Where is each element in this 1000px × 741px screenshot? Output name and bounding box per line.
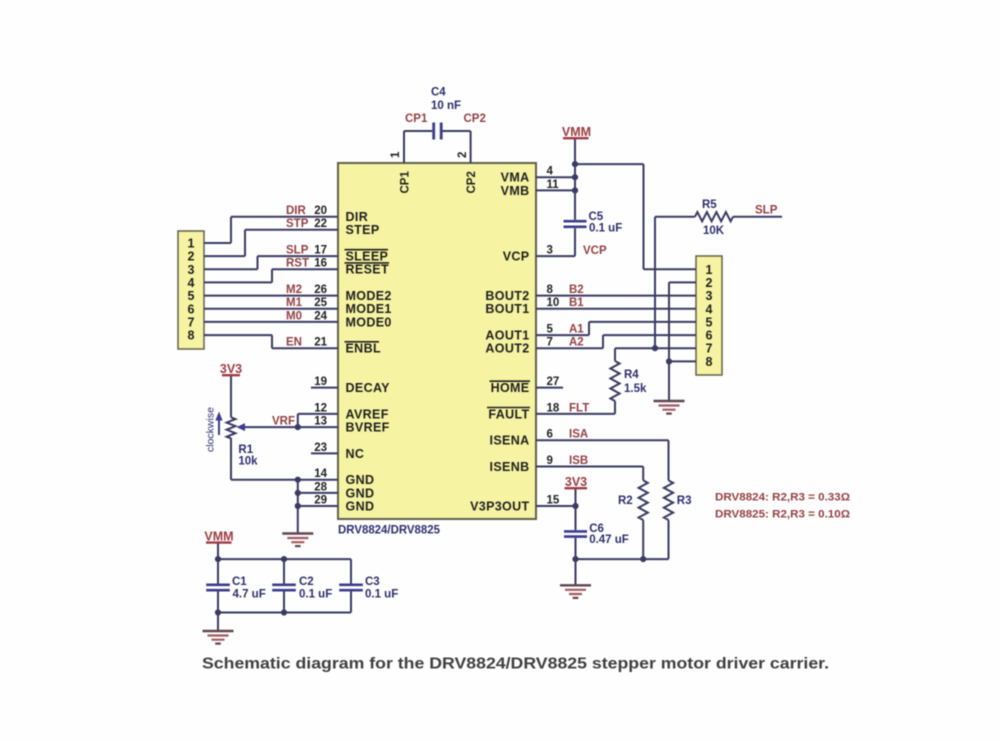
svg-text:18: 18 bbox=[547, 402, 560, 414]
svg-text:ISB: ISB bbox=[569, 455, 588, 467]
svg-text:MODE1: MODE1 bbox=[346, 302, 392, 316]
svg-text:DRV8824: R2,R3 = 0.33Ω: DRV8824: R2,R3 = 0.33Ω bbox=[715, 492, 850, 504]
svg-text:29: 29 bbox=[314, 494, 327, 506]
svg-text:10 nF: 10 nF bbox=[431, 100, 461, 112]
svg-text:VMM: VMM bbox=[204, 530, 233, 544]
svg-text:0.1 uF: 0.1 uF bbox=[589, 223, 622, 235]
svg-text:EN: EN bbox=[286, 337, 302, 349]
svg-text:HOME: HOME bbox=[491, 381, 530, 395]
svg-text:GND: GND bbox=[346, 473, 375, 487]
svg-text:5: 5 bbox=[188, 289, 195, 303]
svg-text:B1: B1 bbox=[569, 297, 584, 309]
svg-text:3: 3 bbox=[547, 245, 553, 257]
svg-text:RST: RST bbox=[286, 258, 309, 270]
svg-text:VCP: VCP bbox=[583, 245, 607, 257]
svg-text:7: 7 bbox=[706, 342, 713, 356]
svg-text:VMA: VMA bbox=[501, 171, 530, 185]
svg-text:11: 11 bbox=[547, 179, 560, 191]
svg-text:28: 28 bbox=[314, 481, 327, 493]
svg-text:C5: C5 bbox=[589, 211, 604, 223]
svg-text:NC: NC bbox=[346, 447, 365, 461]
svg-text:7: 7 bbox=[547, 337, 553, 349]
svg-text:17: 17 bbox=[314, 245, 327, 257]
svg-text:24: 24 bbox=[314, 310, 327, 322]
svg-text:STP: STP bbox=[286, 218, 309, 230]
svg-text:12: 12 bbox=[314, 402, 327, 414]
svg-text:FLT: FLT bbox=[569, 402, 589, 414]
svg-text:19: 19 bbox=[314, 376, 327, 388]
svg-text:4: 4 bbox=[706, 302, 713, 316]
svg-text:R4: R4 bbox=[624, 369, 639, 381]
svg-text:3: 3 bbox=[188, 263, 195, 277]
svg-text:5: 5 bbox=[547, 324, 554, 336]
svg-text:MODE2: MODE2 bbox=[346, 289, 392, 303]
svg-text:C2: C2 bbox=[299, 576, 314, 588]
svg-text:AOUT2: AOUT2 bbox=[485, 342, 529, 356]
svg-text:DIR: DIR bbox=[346, 210, 369, 224]
svg-text:3V3: 3V3 bbox=[220, 362, 242, 376]
svg-text:6: 6 bbox=[188, 302, 195, 316]
svg-text:M2: M2 bbox=[286, 284, 302, 296]
svg-text:FAULT: FAULT bbox=[488, 407, 529, 421]
svg-text:clockwise: clockwise bbox=[205, 407, 217, 452]
svg-text:R3: R3 bbox=[677, 495, 692, 507]
svg-text:5: 5 bbox=[706, 315, 713, 329]
svg-text:CP2: CP2 bbox=[466, 171, 478, 193]
svg-text:2: 2 bbox=[706, 276, 713, 290]
svg-text:10k: 10k bbox=[238, 456, 258, 468]
svg-text:VRF: VRF bbox=[272, 416, 295, 428]
svg-text:27: 27 bbox=[547, 376, 560, 388]
svg-text:26: 26 bbox=[314, 284, 327, 296]
svg-text:ISA: ISA bbox=[569, 429, 588, 441]
svg-text:R1: R1 bbox=[238, 444, 253, 456]
svg-text:15: 15 bbox=[547, 494, 560, 506]
svg-text:8: 8 bbox=[188, 329, 195, 343]
svg-text:STEP: STEP bbox=[346, 223, 380, 237]
svg-text:C3: C3 bbox=[365, 576, 380, 588]
svg-text:CP2: CP2 bbox=[464, 113, 486, 125]
svg-text:AVREF: AVREF bbox=[346, 407, 389, 421]
svg-text:4: 4 bbox=[547, 166, 554, 178]
svg-text:M1: M1 bbox=[286, 297, 303, 309]
svg-text:8: 8 bbox=[706, 355, 713, 369]
svg-text:3: 3 bbox=[706, 289, 713, 303]
svg-text:1: 1 bbox=[706, 263, 713, 277]
svg-text:SLP: SLP bbox=[755, 205, 778, 217]
svg-text:VMM: VMM bbox=[562, 125, 591, 139]
svg-text:VMB: VMB bbox=[501, 184, 530, 198]
svg-text:3V3: 3V3 bbox=[565, 475, 587, 489]
svg-text:SLEEP: SLEEP bbox=[346, 250, 389, 264]
svg-text:RESET: RESET bbox=[346, 263, 389, 277]
svg-text:R5: R5 bbox=[702, 199, 717, 211]
svg-text:ISENB: ISENB bbox=[490, 460, 530, 474]
svg-text:0.1 uF: 0.1 uF bbox=[299, 589, 332, 601]
svg-text:ENBL: ENBL bbox=[346, 342, 381, 356]
svg-text:20: 20 bbox=[314, 205, 327, 217]
svg-text:4: 4 bbox=[188, 276, 195, 290]
svg-text:C1: C1 bbox=[232, 576, 247, 588]
svg-text:AOUT1: AOUT1 bbox=[485, 329, 529, 343]
svg-text:8: 8 bbox=[547, 284, 554, 296]
svg-text:2: 2 bbox=[457, 152, 469, 158]
svg-text:CP1: CP1 bbox=[400, 171, 412, 194]
svg-text:14: 14 bbox=[314, 468, 327, 480]
svg-text:DRV8824/DRV8825: DRV8824/DRV8825 bbox=[338, 525, 441, 537]
svg-text:GND: GND bbox=[346, 499, 375, 513]
svg-text:2: 2 bbox=[188, 250, 195, 264]
svg-text:4.7 uF: 4.7 uF bbox=[233, 589, 266, 601]
svg-text:V3P3OUT: V3P3OUT bbox=[470, 499, 529, 513]
svg-text:BOUT2: BOUT2 bbox=[485, 289, 529, 303]
svg-text:7: 7 bbox=[188, 315, 195, 329]
svg-text:6: 6 bbox=[706, 329, 713, 343]
svg-text:1: 1 bbox=[390, 151, 402, 158]
svg-text:1.5k: 1.5k bbox=[624, 383, 647, 395]
svg-text:GND: GND bbox=[346, 486, 375, 500]
svg-text:9: 9 bbox=[547, 455, 553, 467]
svg-text:DIR: DIR bbox=[286, 205, 307, 217]
svg-text:1: 1 bbox=[188, 237, 195, 251]
svg-text:13: 13 bbox=[314, 416, 327, 428]
svg-text:10: 10 bbox=[547, 297, 560, 309]
svg-text:BOUT1: BOUT1 bbox=[485, 302, 529, 316]
svg-text:0.1 uF: 0.1 uF bbox=[365, 589, 398, 601]
svg-text:SLP: SLP bbox=[286, 245, 309, 257]
svg-text:C4: C4 bbox=[431, 87, 446, 99]
svg-text:23: 23 bbox=[314, 442, 327, 454]
svg-text:ISENA: ISENA bbox=[490, 434, 530, 448]
svg-text:10K: 10K bbox=[703, 225, 725, 237]
svg-text:A2: A2 bbox=[569, 337, 584, 349]
svg-text:21: 21 bbox=[314, 337, 327, 349]
svg-text:16: 16 bbox=[314, 258, 327, 270]
svg-text:DECAY: DECAY bbox=[346, 381, 391, 395]
svg-text:25: 25 bbox=[314, 297, 327, 309]
svg-text:BVREF: BVREF bbox=[346, 421, 390, 435]
svg-text:6: 6 bbox=[547, 429, 553, 441]
svg-text:VCP: VCP bbox=[503, 250, 530, 264]
svg-text:M0: M0 bbox=[286, 310, 302, 322]
svg-text:CP1: CP1 bbox=[405, 113, 428, 125]
svg-text:MODE0: MODE0 bbox=[346, 315, 392, 329]
svg-text:Schematic diagram for the DRV8: Schematic diagram for the DRV8824/DRV882… bbox=[202, 656, 829, 673]
svg-text:R2: R2 bbox=[618, 495, 633, 507]
svg-text:0.47 uF: 0.47 uF bbox=[589, 534, 629, 546]
svg-text:22: 22 bbox=[314, 218, 327, 230]
svg-text:B2: B2 bbox=[569, 284, 584, 296]
svg-text:A1: A1 bbox=[569, 324, 584, 336]
svg-text:DRV8825: R2,R3 = 0.10Ω: DRV8825: R2,R3 = 0.10Ω bbox=[715, 509, 850, 521]
